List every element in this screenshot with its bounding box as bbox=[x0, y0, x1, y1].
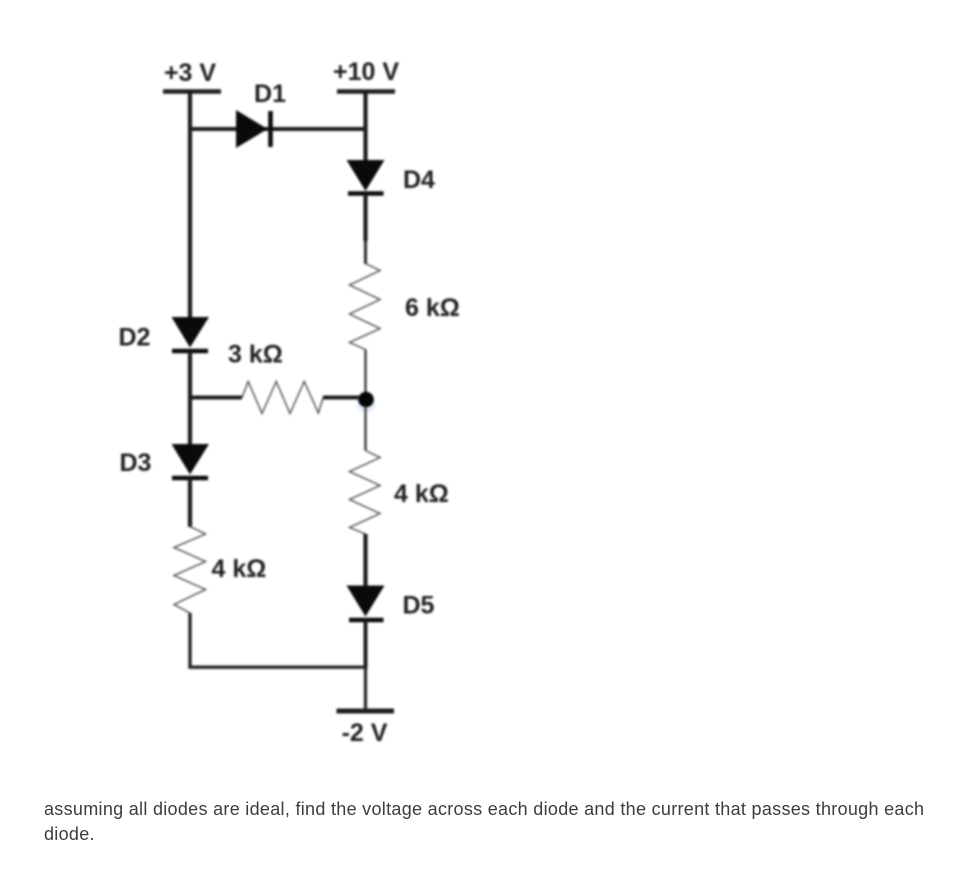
svg-text:D2: D2 bbox=[119, 324, 151, 352]
diode D3 bbox=[172, 444, 210, 478]
node junction dot bbox=[357, 392, 376, 413]
supply +3 V terminal bar bbox=[163, 89, 221, 94]
svg-text:6 kΩ: 6 kΩ bbox=[405, 294, 460, 322]
diode D5 bbox=[347, 586, 385, 621]
supply +10 V terminal bar bbox=[337, 89, 395, 94]
svg-text:-2 V: -2 V bbox=[342, 719, 388, 747]
wire thin lead into 6k resistor bbox=[364, 241, 367, 264]
diode D4 bbox=[347, 160, 385, 194]
wire 4k resistor to D5 bbox=[363, 534, 367, 586]
svg-text:D5: D5 bbox=[403, 592, 435, 620]
wire thin lead 6k resistor to node bbox=[364, 350, 366, 394]
supply -2 V terminal bar bbox=[337, 709, 395, 714]
resistor 6 kOhm bbox=[350, 264, 381, 350]
svg-text:+10 V: +10 V bbox=[333, 58, 399, 86]
problem statement text bbox=[44, 797, 950, 847]
wire bottom horizontal bbox=[188, 666, 365, 669]
diode D1 bbox=[236, 110, 271, 148]
svg-text:4 kΩ: 4 kΩ bbox=[212, 555, 267, 583]
svg-text:3 kΩ: 3 kΩ bbox=[228, 341, 283, 369]
svg-text:+3 V: +3 V bbox=[164, 59, 216, 87]
svg-text:D3: D3 bbox=[120, 449, 152, 477]
wire left rail D2 to D3 bbox=[188, 351, 192, 445]
wire 3k resistor to node bbox=[323, 396, 360, 400]
wire right rail top (+10 V down to D4) bbox=[363, 92, 367, 162]
wire 4k resistor (left) to bottom wire bbox=[188, 613, 191, 667]
wire D5 cathode to bottom junction bbox=[364, 620, 368, 669]
resistor 3 kOhm bbox=[242, 382, 323, 414]
wire thin lead node to 4k resistor (right) bbox=[364, 406, 366, 451]
wire D4 cathode to 6k resistor bbox=[363, 194, 367, 242]
resistor 4 kOhm (left) bbox=[174, 527, 206, 614]
wire mid horizontal (left rail to 3k resistor) bbox=[190, 396, 242, 400]
svg-text:D1: D1 bbox=[254, 80, 286, 108]
resistor 4 kOhm (right) bbox=[350, 451, 381, 535]
wire left rail top (+3 V down to D2) bbox=[188, 92, 192, 321]
svg-text:D4: D4 bbox=[403, 166, 435, 194]
wire D3 cathode to 4k resistor (left) bbox=[188, 478, 192, 527]
wire bottom junction to -2 V terminal bbox=[364, 667, 367, 711]
svg-text:4 kΩ: 4 kΩ bbox=[394, 480, 449, 508]
diode D2 bbox=[172, 317, 210, 351]
wire D1 horizontal (left rail to right rail) bbox=[190, 127, 366, 131]
